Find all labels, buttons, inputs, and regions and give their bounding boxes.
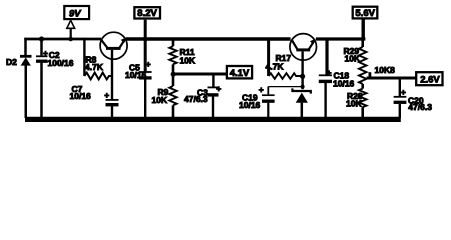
svg-text:8.2V: 8.2V <box>137 8 157 19</box>
wire: Q2 base lead down <box>301 52 303 90</box>
svg-text:10K: 10K <box>180 56 196 66</box>
svg-text:10K: 10K <box>345 53 361 63</box>
svg-text:4.7K: 4.7K <box>266 61 285 71</box>
capacitor C18 10/16 <box>319 38 355 118</box>
svg-text:D2: D2 <box>6 57 17 67</box>
wire: Q1 base lead down to R8 and C7 <box>111 50 113 99</box>
wire: 8.2V stem down to C5 <box>144 20 147 72</box>
resistor R8 4.7K <box>84 38 112 80</box>
resistor R17 4.7K <box>266 38 303 79</box>
resistor R9 10K <box>152 74 177 118</box>
resistor R11 10K <box>169 39 196 74</box>
transistor Q1 <box>100 32 127 59</box>
wire: ground bottom rail <box>25 117 401 122</box>
resistor R28 10K <box>346 89 367 118</box>
wire: left branch from 9V rail down to D2 <box>24 38 27 55</box>
wire: from divider node to 4.1V box <box>174 73 227 76</box>
svg-text:10K8: 10K8 <box>375 65 396 75</box>
svg-text:10K: 10K <box>152 95 168 105</box>
svg-text:10K: 10K <box>346 99 362 109</box>
power label 4.1V <box>227 66 252 79</box>
svg-text:10/16: 10/16 <box>239 100 261 110</box>
svg-text:10/16: 10/16 <box>70 91 92 101</box>
svg-text:+: + <box>146 59 151 69</box>
capacitor C3 47/6.3 <box>184 74 221 118</box>
wire: from node to 2.6V box, labelled 10K8 <box>367 65 417 78</box>
power label 5.6V <box>353 7 378 19</box>
power label 2.6V <box>416 72 442 85</box>
capacitor C19 10/16 <box>239 84 275 118</box>
transistor Q2 <box>290 34 317 61</box>
node: junction R17/base <box>300 74 305 79</box>
diode D2 <box>6 56 32 118</box>
power label 9V with arrow <box>64 6 89 39</box>
wire: 8.2V emitter rail middle segment <box>126 37 291 40</box>
svg-text:+: + <box>259 84 264 94</box>
svg-text:4.1V: 4.1V <box>230 68 250 79</box>
node: junction of C2 with 9V rail <box>39 36 44 41</box>
svg-text:+: + <box>401 87 406 97</box>
zener diode (6.2V) at Q2 base <box>292 88 310 118</box>
svg-text:4.7K: 4.7K <box>85 62 104 72</box>
wire: 5.6V stem down to rail <box>362 19 365 40</box>
resistor R29 10K <box>344 39 367 89</box>
svg-text:10/16: 10/16 <box>333 79 355 89</box>
svg-text:5.6V: 5.6V <box>355 8 375 19</box>
svg-text:+: + <box>327 68 332 78</box>
node: junction tick where 2.6V wire taps R29/R28 divider <box>368 72 371 79</box>
node: junction C19 wire/base <box>301 85 305 89</box>
svg-text:+: + <box>216 84 221 94</box>
wire: +9V top rail left segment <box>24 38 101 41</box>
node: junction R11/R9/4.1V wire <box>171 72 176 77</box>
svg-text:2.6V: 2.6V <box>420 75 440 86</box>
wire: 5.6V emitter rail right segment <box>316 37 366 40</box>
capacitor C5 10/16 <box>125 59 152 118</box>
capacitor C7 10/16 <box>70 84 119 118</box>
svg-text:+: + <box>104 90 109 100</box>
node: 9V arrow junction on rail <box>68 37 73 42</box>
power label 8.2V <box>134 7 160 19</box>
svg-text:100/16: 100/16 <box>48 58 74 68</box>
svg-text:10/16: 10/16 <box>125 70 147 80</box>
capacitor C2 100/16 <box>36 39 74 118</box>
svg-text:47/6.3: 47/6.3 <box>184 94 208 104</box>
svg-text:+: + <box>43 48 48 58</box>
capacitor C20 47/6.3 <box>394 78 433 118</box>
wire: thin wire from base node to C19 <box>268 86 302 88</box>
svg-text:9V: 9V <box>69 8 81 19</box>
svg-text:47/6.3: 47/6.3 <box>408 102 432 112</box>
